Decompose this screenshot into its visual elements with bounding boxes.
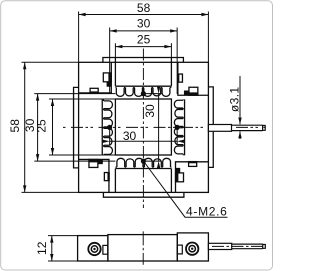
body outer square 58x58 (79, 62, 209, 192)
svg-text:58: 58 (137, 1, 151, 15)
neck boundary lines top/bottom (115, 58, 171, 193)
left screw (88, 243, 100, 255)
12 dim (48, 236, 77, 261)
cable bottom view (208, 243, 231, 249)
right screw (186, 243, 198, 255)
left clamp rect (103, 245, 108, 254)
arrows (79, 13, 86, 16)
svg-text:30: 30 (137, 17, 151, 31)
left dims (22, 62, 79, 192)
dia arrows (238, 118, 241, 125)
top dims (79, 12, 209, 63)
svg-text:25: 25 (137, 32, 151, 46)
svg-text:58: 58 (8, 119, 22, 133)
leader 4-M2.6 (144, 162, 228, 218)
12 arrows (50, 236, 53, 243)
bottom view centerlines (143, 231, 265, 264)
svg-text:30: 30 (143, 104, 157, 118)
middle section (108, 235, 177, 261)
inner 30 arrows point outward (103, 140, 110, 143)
right block (177, 233, 208, 261)
dia 3.1 (239, 76, 241, 139)
centerlines (63, 49, 265, 209)
svg-text:ø3.1: ø3.1 (227, 86, 241, 112)
inner dims (110, 128, 177, 145)
svg-text:25: 25 (35, 119, 49, 133)
cable top view (208, 125, 265, 132)
right clamp rect (177, 245, 182, 254)
central platform square 25x25 (115, 99, 171, 155)
svg-text:30: 30 (123, 129, 137, 143)
quadrant content x4 (rotational symmetry) (79, 58, 184, 97)
svg-text:12: 12 (35, 241, 49, 255)
svg-text:4-M2.6: 4-M2.6 (186, 205, 228, 219)
left block (78, 236, 108, 261)
